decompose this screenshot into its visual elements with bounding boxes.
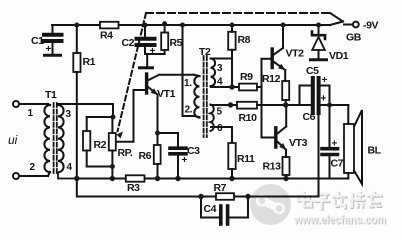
dashed diagonal to RP xyxy=(118,13,146,131)
子 xyxy=(315,193,329,195)
ground bar (C1) xyxy=(45,54,61,57)
transistor VT2 xyxy=(271,49,274,68)
发 xyxy=(332,195,347,197)
svg-text:VT3: VT3 xyxy=(289,137,308,149)
VT1 emitter line down xyxy=(157,95,159,134)
junction ground rail/RP xyxy=(110,176,115,181)
junction rail/R1 xyxy=(74,23,79,28)
svg-text:1: 1 xyxy=(28,108,34,119)
发 xyxy=(333,196,348,198)
svg-text:C4: C4 xyxy=(204,203,217,215)
烧 xyxy=(351,193,354,206)
junction rail B/C4 right xyxy=(245,194,250,199)
zener VD1 xyxy=(318,25,320,34)
resistor R4 xyxy=(100,22,119,29)
VT3 collector up xyxy=(285,105,287,127)
capacitor C6 xyxy=(311,97,315,113)
svg-text:GB: GB xyxy=(346,32,362,44)
junction node B/RP top xyxy=(111,115,116,120)
svg-text:RP.: RP. xyxy=(118,147,133,159)
svg-text:www.elecfans.com: www.elecfans.com xyxy=(293,213,386,227)
svg-text:C5: C5 xyxy=(306,65,319,77)
VT2 collector to rail xyxy=(282,25,284,48)
svg-text:C3: C3 xyxy=(187,145,200,157)
svg-text:1.: 1. xyxy=(184,78,192,89)
resistor R10 xyxy=(237,102,257,109)
svg-text:+: + xyxy=(332,139,338,150)
svg-text:T2: T2 xyxy=(199,46,211,58)
友 xyxy=(368,195,384,197)
svg-text:+: + xyxy=(46,44,52,55)
junction rail B/C4 left xyxy=(198,194,203,199)
junction rail/VT2 collector xyxy=(281,23,286,28)
junction VT1 emitter node xyxy=(155,131,160,136)
transistor VT3 xyxy=(274,128,277,147)
wire term2 to T1 xyxy=(19,175,48,177)
resistor R11 xyxy=(228,143,235,169)
电 xyxy=(302,191,305,207)
svg-text:R9: R9 xyxy=(240,71,253,83)
wire R2 top xyxy=(87,116,113,118)
svg-text:R4: R4 xyxy=(100,30,113,42)
capacitor C7 xyxy=(329,105,331,147)
resistor R7 xyxy=(216,193,234,200)
base bus vertical xyxy=(261,59,263,138)
svg-text:R10: R10 xyxy=(239,112,258,124)
T1 core xyxy=(53,103,55,174)
ground bar (VD1) xyxy=(311,58,327,61)
transformer T1 secondary xyxy=(58,105,64,172)
svg-text:BL: BL xyxy=(368,145,382,157)
junction R2-RP bottom xyxy=(110,164,115,169)
resistor R6 xyxy=(154,145,161,164)
svg-text:C1: C1 xyxy=(31,35,44,47)
potentiometer RP xyxy=(109,133,116,151)
VT2 emitter arrowhead xyxy=(278,64,285,70)
wire T1 sec bottom xyxy=(58,174,77,179)
svg-text:VT1: VT1 xyxy=(157,88,176,100)
RP wiper arrowhead xyxy=(117,132,124,139)
wire to VT2 base xyxy=(262,58,271,60)
VT3 emitter arrowhead xyxy=(279,143,286,150)
wire T2 pin5 xyxy=(211,104,237,106)
bottom rail B xyxy=(77,179,319,197)
output node line xyxy=(257,104,311,106)
svg-text:R8: R8 xyxy=(238,34,251,46)
junction ground rail/C3 xyxy=(175,176,180,181)
svg-text:+: + xyxy=(182,155,188,166)
svg-text:+: + xyxy=(150,46,156,57)
junction rail/C2 xyxy=(143,23,148,28)
capacitor C1 xyxy=(52,25,54,33)
ground join vertical xyxy=(318,108,320,197)
junction rail/R5 xyxy=(162,21,167,26)
svg-text:3: 3 xyxy=(217,63,223,74)
svg-text:R3: R3 xyxy=(127,182,140,194)
ground bar (C2 node) xyxy=(140,66,153,69)
input terminal 1 xyxy=(13,101,19,107)
svg-text:R7: R7 xyxy=(214,182,227,194)
junction ground rail/R13 xyxy=(283,176,288,181)
resistor R2 xyxy=(83,131,90,151)
transistor VT1 xyxy=(145,74,148,93)
svg-text:ui: ui xyxy=(8,133,18,147)
bottom rail A xyxy=(77,178,348,180)
resistor R9 xyxy=(239,84,257,91)
capacitor C3 xyxy=(170,146,186,150)
wire to VT3 base xyxy=(262,137,275,139)
svg-text:R11: R11 xyxy=(237,153,255,165)
svg-text:R1: R1 xyxy=(83,56,96,68)
watermark chinese text xyxy=(298,192,384,211)
wire term1 to T1 xyxy=(19,103,48,105)
junction rail/R8 xyxy=(230,23,235,28)
wire T2 pin4 xyxy=(211,86,239,88)
wire T2 pin6 xyxy=(211,127,232,143)
plus signs xyxy=(46,44,338,166)
wire T2 pin3 xyxy=(211,58,232,60)
emitter node wire to C3 xyxy=(158,133,179,147)
svg-text:3: 3 xyxy=(66,109,72,120)
resistor R3 xyxy=(126,175,145,181)
resistor R1 xyxy=(73,53,80,72)
svg-text:4: 4 xyxy=(217,77,223,88)
svg-text:VT2: VT2 xyxy=(286,48,305,60)
svg-text:+: + xyxy=(321,94,327,105)
wire T1 sec top xyxy=(58,103,113,105)
top supply rail xyxy=(52,24,330,26)
junction T2 pin4/R9 xyxy=(229,84,234,89)
VT1 emitter arrowhead xyxy=(151,88,158,95)
junction ground rail/T1 xyxy=(74,176,79,181)
transformer T2 sec upper xyxy=(211,59,216,87)
transformer T2 sec lower xyxy=(211,105,214,131)
junction rail/T2 pin2 xyxy=(180,23,185,28)
resistor R12 xyxy=(282,81,289,100)
svg-text:6: 6 xyxy=(217,123,223,134)
svg-text:R6: R6 xyxy=(139,150,152,162)
junction output node/C7 xyxy=(327,103,332,108)
watermark logo xyxy=(250,184,291,225)
capacitor C4 loop xyxy=(201,197,219,218)
wire VT1 collector to T2 pin1 xyxy=(159,74,194,76)
svg-text:VD1: VD1 xyxy=(329,50,349,62)
junction ground rail/R11 xyxy=(229,176,234,181)
resistor R8 xyxy=(228,32,235,50)
svg-text:C6: C6 xyxy=(303,111,316,123)
svg-text:T1: T1 xyxy=(45,89,57,101)
友 xyxy=(367,194,383,196)
wire T2 pin2 to rail xyxy=(183,25,195,116)
speaker BL xyxy=(347,105,349,124)
svg-text:5: 5 xyxy=(217,107,223,118)
svg-text:2.: 2. xyxy=(185,105,193,116)
电 xyxy=(303,192,306,208)
svg-text:4: 4 xyxy=(67,162,73,173)
svg-text:R12: R12 xyxy=(262,73,281,85)
resistor R5 xyxy=(161,33,168,51)
junction output node/R12 xyxy=(283,102,288,107)
dashed shield line top xyxy=(146,12,330,14)
switch arrow to battery xyxy=(330,22,343,26)
input terminal 2 xyxy=(13,173,19,179)
svg-text:2: 2 xyxy=(30,162,36,173)
wire R2 bottom xyxy=(87,166,113,168)
capacitor C5 branch xyxy=(300,86,312,106)
RP wiper wire to VT1 base xyxy=(116,90,145,142)
wire C2-R5 node xyxy=(145,53,165,55)
svg-text:-9V: -9V xyxy=(363,20,379,32)
capacitor C2 xyxy=(144,25,146,37)
resistor R13 xyxy=(283,157,290,175)
transformer T2 primary xyxy=(194,76,199,118)
子 xyxy=(316,194,330,196)
svg-text:C7: C7 xyxy=(331,158,344,170)
svg-text:R13: R13 xyxy=(263,161,282,173)
烧 xyxy=(352,194,355,207)
junction ground rail/R6 xyxy=(155,176,160,181)
wire node to RP xyxy=(112,104,114,117)
svg-text:R2: R2 xyxy=(94,139,107,151)
svg-text:+: + xyxy=(322,75,328,86)
T2 core xyxy=(203,56,205,137)
svg-text:R5: R5 xyxy=(170,37,183,49)
svg-text:C2: C2 xyxy=(122,37,135,49)
junction T2 pin5/R10 xyxy=(228,102,233,107)
transformer T1 primary xyxy=(44,105,50,172)
battery terminal circle xyxy=(353,22,359,28)
junction rail/VD1 xyxy=(316,23,321,28)
